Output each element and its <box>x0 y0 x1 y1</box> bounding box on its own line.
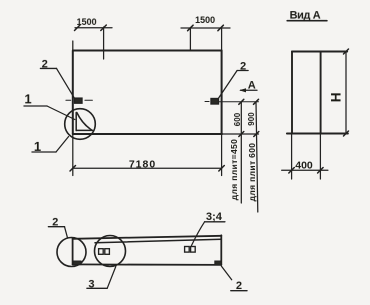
underline label 2 right <box>237 70 248 72</box>
svg-text:3;4: 3;4 <box>206 211 223 223</box>
Vid A: left edge <box>291 52 293 134</box>
vertical dimension line 900 <box>256 102 258 212</box>
leader label 3 <box>107 267 116 289</box>
bearing pad bottom-left (filled) <box>73 261 81 265</box>
gusset hypotenuse <box>77 113 92 131</box>
svg-text:1500: 1500 <box>77 17 97 27</box>
dimension 1500 left: tick right <box>101 25 107 31</box>
bearing pad bottom-right (filled) <box>215 261 222 265</box>
underline label 2 left <box>40 67 56 69</box>
dimension H: tick top <box>344 49 349 54</box>
centerline dash left of loop <box>66 99 71 101</box>
edge view: bottom edge <box>73 263 222 266</box>
dimension 1500 right: dimension line <box>181 27 230 29</box>
bottom edge extension to the right <box>222 133 259 135</box>
svg-text:для плит=450: для плит=450 <box>229 139 239 200</box>
extension line from right loop to vertical dims <box>219 101 259 103</box>
Vid A: right edge <box>320 52 322 134</box>
dimension 400: extension left <box>291 134 293 180</box>
underline label 2 edge-view top-left <box>48 226 64 228</box>
svg-text:А: А <box>248 79 256 91</box>
panel plan outline: bottom edge <box>73 133 222 135</box>
centerline dash left of right loop <box>205 101 209 103</box>
dimension 1500 right: extension line <box>189 28 191 51</box>
svg-text:2: 2 <box>52 216 58 228</box>
svg-text:1500: 1500 <box>195 15 215 25</box>
leader label 2 edge-view <box>65 227 68 238</box>
dimension 1500 right: tick right <box>218 25 224 31</box>
gusset horizontal leg <box>76 129 92 131</box>
leader label 3;4 <box>192 222 205 246</box>
lifting loop marker right (pos 2) <box>211 99 219 105</box>
view direction arrow A: head <box>239 88 246 92</box>
dimension 400: tick right <box>318 168 324 174</box>
svg-text:2: 2 <box>240 60 246 72</box>
extension line below left edge for 7180 <box>72 134 74 176</box>
lifting loop marker left (pos 2) <box>75 98 83 103</box>
dimension 7180: tick right <box>219 166 225 172</box>
panel plan outline: top edge <box>73 50 222 52</box>
svg-text:900: 900 <box>247 112 256 126</box>
leader label 1 upper <box>47 106 75 120</box>
svg-text:2: 2 <box>236 280 242 292</box>
svg-text:400: 400 <box>295 160 313 172</box>
leader label 2 edge-view bottom-right <box>221 266 231 280</box>
dimension H: tick bottom <box>344 131 349 136</box>
svg-text:Н: Н <box>329 92 344 102</box>
title underline Vid A <box>287 20 327 22</box>
svg-text:1: 1 <box>34 139 41 154</box>
dimension 1500 left: tick left <box>75 25 81 31</box>
edge view: right end edge <box>220 235 222 265</box>
svg-text:Вид А: Вид А <box>290 9 321 21</box>
svg-text:1: 1 <box>24 91 31 106</box>
dimension 1500 left: extension line <box>103 27 105 59</box>
tick top of 900 line <box>254 99 259 104</box>
tick bottom of 600 line <box>239 132 244 137</box>
svg-text:3: 3 <box>88 278 94 290</box>
detail circle (node 1) <box>65 109 96 140</box>
svg-text:для плит 600: для плит 600 <box>247 143 257 202</box>
Vid A: bottom edge with extensions <box>287 133 348 135</box>
edge view: left end edge <box>72 239 74 265</box>
leader label 2 right <box>218 71 237 99</box>
underline label 3;4 <box>205 221 225 223</box>
dimension 400: extension right <box>319 134 321 180</box>
dimension 7180: dimension line <box>73 167 222 169</box>
extension line above right edge <box>221 28 223 51</box>
edge view: top edge line 2 <box>95 239 221 243</box>
underline label 1 upper <box>24 105 47 107</box>
edge view: top edge line 1 <box>73 236 222 239</box>
centerline dash right of loop <box>85 99 93 101</box>
tick top of 600 line <box>239 99 244 104</box>
dimension 400: dimension line <box>282 169 328 171</box>
embedded squares pair middle (pos 3;4) <box>185 247 190 253</box>
underline label 1 lower <box>32 151 56 153</box>
extension line above left edge <box>72 41 74 51</box>
dimension 1500 right: tick left <box>188 25 194 31</box>
gusset vertical leg <box>75 113 77 131</box>
detail circle right (pos 3) <box>95 236 126 267</box>
extension line below right edge for 7180 <box>221 134 223 176</box>
embedded squares pair in right circle (pos 3) <box>99 249 104 255</box>
svg-text:600: 600 <box>233 112 242 126</box>
svg-text:2: 2 <box>42 58 48 70</box>
Vid A: top edge with extension <box>292 51 347 53</box>
dimension 1500 left: dimension line <box>75 27 112 29</box>
detail circle left (pos 2) <box>57 238 86 267</box>
view direction arrow A: shaft <box>241 89 258 91</box>
dimension H: dimension line <box>345 52 347 134</box>
panel plan outline: right edge <box>221 51 223 135</box>
vertical dimension line 600 <box>240 102 242 203</box>
dimension 400: tick left <box>289 168 295 174</box>
underline label 2 edge-view bottom-right <box>231 290 247 292</box>
dimension 7180: tick left <box>70 166 76 172</box>
underline label 3 <box>87 287 107 289</box>
tick bottom of 900 line <box>254 132 259 137</box>
leader label 2 left <box>57 68 75 98</box>
svg-text:7180: 7180 <box>129 158 156 170</box>
leader label 1 lower <box>56 137 69 153</box>
panel plan outline: left edge <box>72 51 74 135</box>
